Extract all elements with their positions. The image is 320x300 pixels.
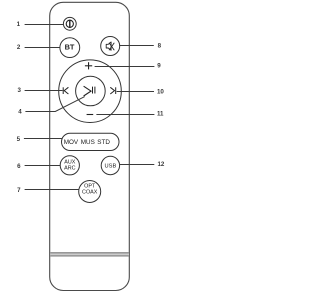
leader line 12 xyxy=(120,164,154,166)
svg-text:STD: STD xyxy=(97,139,110,146)
mute speaker icon xyxy=(106,42,114,50)
svg-text:BT: BT xyxy=(65,42,75,51)
power icon xyxy=(66,20,73,28)
svg-text:ARC: ARC xyxy=(64,165,75,171)
next track icon xyxy=(110,87,115,94)
play/pause icon xyxy=(84,86,95,96)
BT button xyxy=(60,38,80,58)
leader line 1 xyxy=(25,24,64,26)
leader line 10 xyxy=(117,91,154,93)
remote body outline xyxy=(50,2,130,290)
svg-text:MUS: MUS xyxy=(81,139,95,146)
svg-text:12: 12 xyxy=(158,161,165,168)
leader line 5 xyxy=(24,138,62,140)
svg-text:10: 10 xyxy=(157,89,164,96)
leader line 8 xyxy=(119,45,154,47)
svg-text:MOV: MOV xyxy=(64,139,79,146)
play/pause inner circle xyxy=(76,76,106,106)
leader line 2 xyxy=(25,47,61,49)
previous track icon xyxy=(63,87,68,94)
battery cover seam xyxy=(50,252,129,256)
leader line 7 xyxy=(25,189,79,191)
leader line 3 xyxy=(25,90,63,92)
AUX/ARC button xyxy=(60,156,79,175)
volume minus xyxy=(87,114,94,116)
volume / transport pad outer ring xyxy=(59,60,122,123)
svg-text:COAX: COAX xyxy=(82,189,98,195)
mute button xyxy=(101,37,120,56)
leader line 4 (horizontal + diagonal to play button) xyxy=(25,97,84,112)
USB button xyxy=(101,156,119,174)
volume plus xyxy=(85,62,92,69)
leader line 9 xyxy=(95,66,155,68)
leader line 6 xyxy=(25,165,61,167)
svg-text:USB: USB xyxy=(105,164,117,170)
leader line 11 xyxy=(96,114,154,116)
power button xyxy=(63,17,76,30)
sound mode pill button MOV MUS STD xyxy=(62,133,120,150)
OPT/COAX button xyxy=(79,181,101,203)
svg-text:11: 11 xyxy=(157,111,164,118)
